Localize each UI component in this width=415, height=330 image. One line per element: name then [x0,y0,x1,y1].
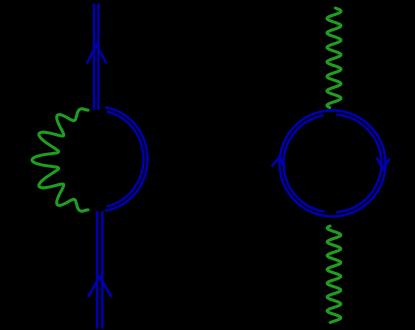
gluon propagator: external wavy line (bottom right) [327,226,341,323]
gluon propagator: external wavy line (top right) [327,8,341,108]
arrow on fermion loop (right side, pointing down) [377,157,390,168]
arrow on fermion loop (left side, pointing up) [272,157,285,168]
quark propagator: incoming external double line (top left) [94,4,98,111]
fermion loop: inner circle left arc [284,115,325,212]
arrow on incoming quark line [87,45,107,64]
quark loop propagator: inner line of right-half arc [107,112,144,207]
fermion loop: outer circle [280,110,386,216]
gluon propagator: wavy left-half arc of self-energy loop [32,109,88,211]
quark propagator: outgoing external double line (bottom left) [97,211,102,329]
fermion loop: inner circle right arc [336,115,381,213]
arrow on outgoing quark line [88,277,111,298]
quark loop propagator: outer line of right-half arc [105,107,148,211]
